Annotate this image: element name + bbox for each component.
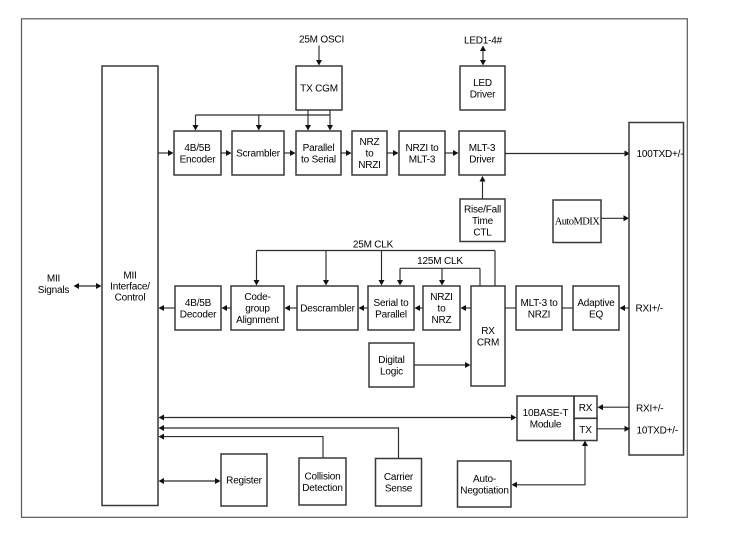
svg-text:Logic: Logic: [380, 366, 403, 377]
svg-text:Driver: Driver: [469, 154, 495, 165]
wire Carrier Sense to MII: [159, 425, 399, 458]
svg-text:100TXD+/-: 100TXD+/-: [637, 149, 684, 160]
block RX CRM: [471, 286, 505, 386]
svg-text:NRZI: NRZI: [358, 160, 381, 171]
svg-text:25M OSCI: 25M OSCI: [299, 35, 344, 46]
svg-text:NRZ: NRZ: [432, 315, 452, 326]
svg-text:25M CLK: 25M CLK: [353, 240, 394, 251]
svg-text:CRM: CRM: [477, 337, 499, 348]
wire MII Signals to MII Interface (bidirectional): [74, 283, 102, 289]
block Descrambler: [297, 286, 358, 330]
block Digital Logic: [369, 343, 414, 387]
svg-text:RX: RX: [579, 403, 593, 414]
wire Parallel to Serial to NRZ to NRZI: [341, 150, 352, 156]
svg-text:Digital: Digital: [378, 355, 404, 366]
svg-text:EQ: EQ: [589, 309, 603, 320]
wire RXI pad to 10BASE-T RX: [598, 404, 630, 410]
wire MLT-3 to NRZI to RX CRM: [505, 307, 516, 309]
wire Collision Detection to MII: [159, 434, 324, 458]
block Register: [221, 454, 267, 506]
wire MLT-3 Driver to 100TXD pad: [505, 151, 630, 157]
wire 125M CLK net from RX CRM to RX blocks: [397, 268, 480, 286]
wire RXI pad to Adaptive EQ: [620, 305, 630, 311]
block AutoMDIX: [553, 200, 601, 243]
block 4B/5B Decoder: [175, 286, 221, 330]
wire 25M CLK net from RX CRM to RX blocks: [254, 251, 496, 287]
block PMD pad ring (100TXD/RXI/10TXD): [629, 123, 684, 456]
wire MII to Register (bidirectional): [159, 478, 221, 484]
block MLT-3 to NRZI: [516, 286, 562, 330]
svg-text:Code-: Code-: [244, 292, 270, 303]
svg-text:to: to: [438, 304, 447, 315]
svg-text:TX: TX: [579, 425, 592, 436]
wire TX CGM clock branch to encoder row: [193, 110, 334, 131]
wire NRZ to NRZI to NRZI to MLT-3: [387, 150, 399, 156]
svg-text:10TXD+/-: 10TXD+/-: [637, 425, 678, 436]
node MII Signals label: [38, 274, 70, 297]
block 10BASE-T RX: [574, 396, 597, 418]
block Parallel to Serial: [296, 131, 341, 175]
wire Serial to Parallel to Descrambler: [359, 305, 369, 311]
block Rise/Fall Time CTL: [460, 199, 505, 242]
block 4B/5B Encoder: [174, 131, 221, 175]
block Carrier Sense: [376, 459, 422, 507]
wire MII to 10BASE-T Module (bidirectional): [159, 415, 517, 421]
wire Code-group Alignment to 4B/5B Decoder: [222, 305, 232, 311]
wire RX CRM to NRZI to NRZ: [461, 305, 472, 311]
block MLT-3 Driver: [459, 131, 505, 175]
svg-text:MLT-3 to: MLT-3 to: [520, 298, 558, 309]
svg-text:to Serial: to Serial: [301, 154, 336, 165]
svg-text:RXI+/-: RXI+/-: [636, 304, 663, 315]
svg-text:Detection: Detection: [302, 483, 342, 494]
svg-text:LED1-4#: LED1-4#: [464, 36, 503, 47]
svg-text:NRZI: NRZI: [430, 292, 453, 303]
svg-text:Negotiation: Negotiation: [460, 485, 508, 496]
svg-text:Time: Time: [472, 216, 494, 227]
wire 4B/5B Encoder to Scrambler: [221, 150, 232, 156]
svg-text:10BASE-T: 10BASE-T: [523, 408, 569, 419]
block Serial to Parallel: [368, 286, 414, 330]
block NRZ to NRZI: [352, 131, 387, 175]
wire Adaptive EQ to MLT-3 to NRZI: [562, 307, 573, 309]
svg-text:Interface/: Interface/: [110, 281, 150, 292]
block NRZI to NRZ: [423, 286, 460, 330]
block Collision Detection: [299, 458, 346, 505]
block LED Driver: [460, 66, 505, 110]
wire 4B/5B Decoder to MII: [159, 305, 176, 311]
svg-text:to: to: [366, 149, 375, 160]
wire NRZI to NRZ to Serial to Parallel: [415, 305, 424, 311]
svg-text:Sense: Sense: [385, 484, 413, 495]
block NRZI to MLT-3: [399, 131, 445, 175]
wire Auto-Negotiation to 10BASE-T TX (bidirectional): [512, 441, 589, 488]
svg-text:group: group: [245, 304, 270, 315]
block Code-group Alignment: [231, 286, 284, 330]
svg-text:TX CGM: TX CGM: [300, 84, 338, 95]
svg-text:Control: Control: [115, 292, 146, 303]
svg-text:4B/5B: 4B/5B: [185, 298, 212, 309]
svg-text:Module: Module: [530, 419, 562, 430]
svg-text:MII: MII: [123, 270, 136, 281]
svg-text:RX: RX: [481, 326, 495, 337]
svg-text:AutoMDIX: AutoMDIX: [555, 217, 601, 228]
svg-text:4B/5B: 4B/5B: [184, 143, 211, 154]
svg-text:NRZ: NRZ: [360, 137, 380, 148]
block 10BASE-T Module: [517, 396, 574, 441]
svg-text:Register: Register: [226, 476, 263, 487]
svg-text:NRZI to: NRZI to: [405, 143, 439, 154]
wire Scrambler to Parallel to Serial: [284, 150, 296, 156]
wire Rise/Fall Time CTL to MLT-3 Driver: [480, 176, 486, 199]
svg-text:Descrambler: Descrambler: [300, 304, 355, 315]
wire 25M OSCI to TX CGM: [316, 46, 322, 66]
svg-text:Carrier: Carrier: [384, 472, 414, 483]
block Auto-Negotiation: [458, 461, 512, 507]
svg-text:Encoder: Encoder: [180, 154, 217, 165]
block TX CGM: [296, 66, 342, 110]
wire LED1-4# to LED Driver (bidirectional): [480, 46, 486, 66]
block U1 MII Interface/Control: [102, 66, 158, 506]
svg-text:Collision: Collision: [305, 471, 341, 482]
svg-text:Alignment: Alignment: [236, 315, 279, 326]
svg-text:MLT-3: MLT-3: [469, 143, 496, 154]
wire Digital Logic to RX CRM: [414, 362, 471, 368]
wire NRZI to MLT-3 to MLT-3 Driver: [445, 150, 459, 156]
svg-text:Serial to: Serial to: [374, 298, 410, 309]
wire Descrambler to Code-group Alignment: [285, 305, 298, 311]
svg-text:RXI+/-: RXI+/-: [636, 403, 663, 414]
svg-text:MII: MII: [47, 274, 60, 285]
svg-text:Parallel: Parallel: [375, 309, 407, 320]
wire AutoMDIX to line side: [601, 215, 629, 221]
svg-text:Signals: Signals: [38, 285, 70, 296]
block 10BASE-T TX: [574, 418, 597, 440]
block Adaptive EQ: [573, 286, 619, 330]
wire 10BASE-T TX to 10TXD pad: [597, 426, 630, 432]
wire MII to 4B/5B Encoder: [158, 150, 174, 156]
svg-text:CTL: CTL: [473, 227, 492, 238]
svg-text:LED: LED: [473, 78, 492, 89]
svg-text:Parallel: Parallel: [303, 143, 335, 154]
svg-text:Driver: Driver: [470, 89, 496, 100]
svg-text:Rise/Fall: Rise/Fall: [464, 204, 501, 215]
block Scrambler: [232, 131, 284, 175]
svg-text:NRZI: NRZI: [528, 309, 551, 320]
svg-text:MLT-3: MLT-3: [409, 154, 436, 165]
svg-text:125M CLK: 125M CLK: [417, 256, 463, 267]
svg-text:Auto-: Auto-: [473, 474, 496, 485]
svg-text:Decoder: Decoder: [180, 309, 217, 320]
svg-text:Adaptive: Adaptive: [577, 298, 615, 309]
svg-text:Scrambler: Scrambler: [236, 149, 281, 160]
